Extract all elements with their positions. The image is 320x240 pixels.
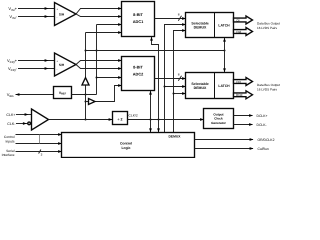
wire VBG output (16, 93, 54, 96)
node CLK- label (7, 122, 16, 126)
wire clock up to ADC2 (149, 91, 152, 120)
svg-text:CLK/2: CLK/2 (129, 113, 138, 117)
svg-text:ADC2: ADC2 (133, 71, 144, 76)
svg-text:ADC1: ADC1 (133, 19, 144, 24)
wire DCLK+ output (234, 114, 254, 117)
output block arrow DQ (234, 78, 253, 86)
svg-text:DEMUX: DEMUX (194, 86, 207, 90)
wire VINQ+ (18, 59, 55, 62)
node VINI- label (9, 14, 17, 20)
wire I data bus ADC1 to DEMUX1 (155, 17, 187, 20)
wire buffer output to ADC2 in4 (95, 84, 122, 101)
svg-text:Generator: Generator (211, 121, 227, 125)
svg-text:8-BIT: 8-BIT (133, 65, 143, 70)
svg-text:8: 8 (178, 72, 180, 76)
svg-text:LATCH: LATCH (218, 24, 230, 28)
wire latch clock down branch to LATCH2 (223, 51, 226, 73)
wire latch clock up branch to LATCH1 (223, 38, 226, 51)
svg-text:DCLK-: DCLK- (257, 123, 267, 127)
svg-text:CLK+: CLK+ (6, 113, 15, 117)
svg-text:Selectable: Selectable (191, 21, 208, 25)
wire clock main to divider (49, 118, 113, 121)
svg-text:Inputs: Inputs (6, 139, 15, 143)
wire VINI+ (18, 7, 55, 10)
clock buffer amp (28, 109, 49, 130)
block U4 Selectable DEMUX / LATCH (Q) (186, 73, 234, 99)
wire latch clock line (86, 50, 226, 52)
divider block /2 (113, 112, 128, 125)
bus slash 8 on Q bus (178, 72, 182, 80)
wire clock up to ADC1 (150, 37, 158, 120)
op-amp S/H 1 (55, 3, 77, 26)
wire OR/DCLK2 output (195, 138, 254, 141)
block Control Logic / DEMUX (62, 133, 195, 158)
wire demux select riser to DEMUX1 in2 (165, 23, 187, 132)
svg-text:DEMUX: DEMUX (194, 26, 207, 30)
output block arrow DId (234, 28, 253, 36)
svg-text:CalRun: CalRun (258, 147, 269, 151)
wire reference to ADC2 in3 (97, 76, 123, 79)
node DCLK- label (257, 123, 267, 127)
node OR/DCLK2 label (258, 138, 275, 142)
wire reference to ADC1 in3 (97, 23, 123, 26)
svg-text:VINI-: VINI- (9, 14, 17, 20)
svg-text:S/H: S/H (59, 12, 65, 16)
bus slash 3 on serial interface (39, 150, 43, 157)
wire clock down to control logic b (157, 120, 160, 133)
node VINI+ label (8, 6, 17, 12)
svg-text:Selectable: Selectable (191, 82, 208, 86)
node VBG label (7, 92, 14, 98)
wire DCLK- output (234, 123, 254, 126)
svg-text:DId: DId (236, 30, 241, 34)
buffer amp up-triangle on riser (82, 78, 89, 85)
svg-text:16 LVDS Pairs: 16 LVDS Pairs (257, 26, 278, 30)
wire clock tree to ADC1 in4 (86, 31, 123, 34)
wire control input 1 (16, 133, 63, 136)
svg-text:VINQ+: VINQ+ (7, 58, 18, 64)
block Output Clock Generator (204, 109, 234, 129)
svg-text:Control: Control (120, 142, 132, 146)
wire S/H2 out - to ADC2 (76, 65, 122, 70)
wire clock down to control logic a (149, 120, 152, 133)
svg-text:CLK-: CLK- (7, 122, 16, 126)
wire control input 2 (16, 142, 63, 145)
block U3 Selectable DEMUX / LATCH (I) (186, 13, 234, 38)
wire demux select tap to DEMUX2 in2 (164, 85, 187, 88)
wire CalRun output (195, 147, 254, 150)
svg-text:Interface: Interface (2, 153, 15, 157)
label Data Bus Output 16 LVDS Pairs (Q) (257, 83, 280, 91)
wire serial interface (16, 150, 63, 153)
svg-text:VBG: VBG (7, 92, 14, 98)
wire vertical clock tree riser x85 (85, 33, 87, 121)
node Control Inputs label (4, 135, 15, 143)
block VREF (54, 87, 72, 99)
node CLK+ label (6, 113, 15, 117)
svg-text:VINI+: VINI+ (8, 6, 17, 12)
node VINQ+ label (7, 58, 18, 64)
svg-text:VINQ-: VINQ- (8, 66, 18, 72)
label Data Bus Output 16 LVDS Pairs (I) (257, 22, 280, 30)
wire CLK/2 to output clock generator (128, 118, 205, 121)
svg-text:-: - (57, 68, 58, 71)
node DCLK+ label (257, 114, 268, 118)
svg-text:LATCH: LATCH (218, 84, 230, 88)
svg-text:Logic: Logic (121, 146, 130, 150)
node CalRun label (258, 147, 269, 151)
svg-text:16 LVDS Pairs: 16 LVDS Pairs (257, 87, 278, 91)
wire S/H1 out - to ADC1 (76, 14, 122, 18)
wire VINQ- (18, 67, 55, 70)
bus slash 8 on I bus (178, 12, 182, 20)
wire Q data bus ADC2 to DEMUX2 (155, 77, 187, 80)
op-amp S/H 2 (55, 53, 77, 76)
output block arrow DI (234, 16, 253, 24)
svg-text:DCLK+: DCLK+ (257, 114, 268, 118)
wire vertical reference riser x96 (96, 25, 98, 95)
svg-text:DEMUX: DEMUX (169, 135, 182, 139)
svg-text:VREF: VREF (59, 91, 67, 96)
buffer amp right-triangle (89, 99, 96, 105)
wire VINI- (18, 15, 55, 18)
bus tick on control inputs (39, 135, 41, 144)
wire demux select tap to DEMUX2 in3 (173, 92, 187, 95)
svg-text:-: - (57, 16, 58, 19)
output block arrow DQd (234, 91, 253, 99)
wire VREF to reference risers (72, 94, 97, 96)
svg-text:÷ 2: ÷ 2 (118, 117, 123, 121)
svg-text:DQ: DQ (236, 80, 241, 84)
svg-text:8-BIT: 8-BIT (133, 12, 143, 17)
svg-text:DQd: DQd (236, 93, 243, 97)
svg-text:S/H: S/H (59, 63, 65, 67)
svg-text:DI: DI (236, 18, 239, 22)
wire S/H1 out + to ADC1 (76, 7, 122, 14)
wire S/H2 out + to ADC2 (76, 59, 122, 64)
wire buffer branch (86, 101, 89, 103)
label CLK/2 (129, 113, 138, 117)
wire CLK- (16, 122, 28, 125)
node Serial Interface label (2, 149, 15, 157)
ADC U2 8-BIT ADC2 (122, 57, 155, 91)
svg-text:OR/DCLK2: OR/DCLK2 (258, 138, 275, 142)
wire demux select riser to DEMUX1 in3 (174, 29, 187, 132)
svg-text:8: 8 (178, 12, 180, 16)
ADC U1 8-BIT ADC1 (122, 2, 155, 37)
wire CLK+ (16, 113, 32, 116)
svg-text:3: 3 (41, 153, 43, 157)
node VINQ- label (8, 66, 18, 72)
